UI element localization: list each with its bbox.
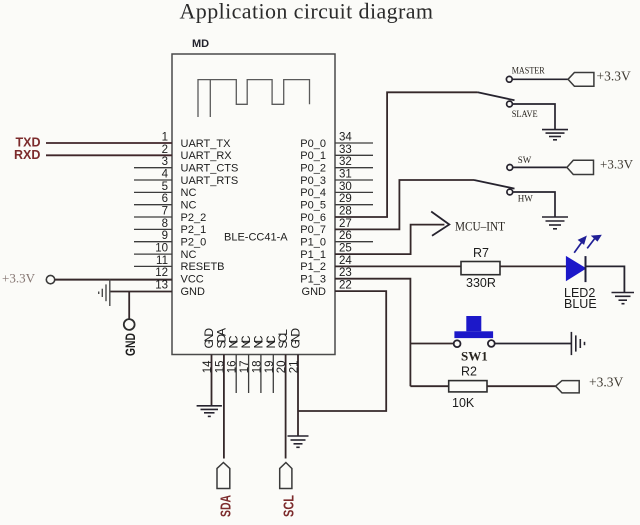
svg-text:3: 3 — [162, 156, 168, 168]
svg-text:31: 31 — [339, 169, 352, 181]
svg-text:4: 4 — [162, 169, 169, 181]
svg-text:P1_0: P1_0 — [300, 237, 326, 249]
svg-text:17: 17 — [239, 361, 251, 374]
svg-text:11: 11 — [156, 255, 168, 267]
svg-text:P0_0: P0_0 — [300, 138, 326, 150]
svg-text:UART_CTS: UART_CTS — [181, 163, 239, 175]
svg-text:21: 21 — [289, 361, 301, 374]
svg-text:UART_RX: UART_RX — [181, 150, 233, 162]
svg-text:8: 8 — [162, 218, 168, 230]
svg-text:GND: GND — [289, 328, 303, 349]
svg-text:28: 28 — [339, 206, 352, 218]
svg-text:NC: NC — [181, 200, 197, 212]
svg-text:20: 20 — [276, 361, 288, 374]
svg-text:GND: GND — [181, 286, 206, 298]
svg-text:22: 22 — [339, 280, 352, 292]
svg-text:SW1: SW1 — [461, 349, 488, 364]
svg-text:P1_2: P1_2 — [300, 261, 326, 273]
svg-text:SCL: SCL — [282, 495, 298, 517]
svg-text:SLAVE: SLAVE — [512, 109, 538, 119]
svg-text:SDA: SDA — [219, 495, 235, 517]
svg-text:P2_0: P2_0 — [181, 237, 207, 249]
svg-text:UART_TX: UART_TX — [181, 138, 232, 150]
svg-text:P0_7: P0_7 — [300, 224, 326, 236]
svg-text:UART_RTS: UART_RTS — [181, 175, 239, 187]
svg-text:33: 33 — [339, 144, 352, 156]
svg-text:24: 24 — [339, 255, 352, 267]
svg-text:R7: R7 — [473, 246, 489, 260]
svg-text:MCU–INT: MCU–INT — [455, 219, 505, 234]
svg-text:R2: R2 — [461, 365, 477, 379]
svg-text:GND: GND — [123, 333, 138, 356]
svg-text:18: 18 — [251, 361, 263, 374]
svg-text:MD: MD — [192, 38, 209, 50]
svg-text:10K: 10K — [452, 396, 475, 410]
svg-text:1: 1 — [162, 132, 168, 144]
svg-text:23: 23 — [339, 267, 352, 279]
svg-text:MASTER: MASTER — [512, 65, 545, 75]
svg-text:VCC: VCC — [181, 274, 204, 286]
svg-text:SW: SW — [518, 155, 532, 165]
svg-text:P0_1: P0_1 — [300, 150, 326, 162]
svg-text:15: 15 — [214, 361, 226, 374]
svg-text:P1_3: P1_3 — [300, 274, 326, 286]
svg-text:32: 32 — [339, 156, 352, 168]
svg-text:30: 30 — [339, 181, 352, 193]
svg-text:BLE-CC41-A: BLE-CC41-A — [224, 232, 288, 244]
svg-text:34: 34 — [339, 132, 352, 144]
svg-text:P0_4: P0_4 — [300, 187, 326, 199]
svg-text:+3.3V: +3.3V — [2, 271, 36, 286]
svg-text:P2_2: P2_2 — [181, 212, 207, 224]
svg-text:P0_6: P0_6 — [300, 212, 326, 224]
svg-text:25: 25 — [339, 243, 352, 255]
svg-text:330R: 330R — [466, 276, 496, 290]
svg-text:19: 19 — [264, 361, 276, 374]
svg-text:26: 26 — [339, 230, 352, 242]
svg-text:29: 29 — [339, 193, 352, 205]
svg-text:16: 16 — [227, 361, 239, 374]
svg-text:12: 12 — [155, 267, 168, 279]
svg-text:5: 5 — [162, 181, 168, 193]
svg-text:9: 9 — [162, 230, 168, 242]
svg-text:+3.3V: +3.3V — [600, 156, 634, 171]
svg-text:14: 14 — [202, 360, 214, 373]
svg-text:GND: GND — [302, 286, 327, 298]
svg-text:P0_2: P0_2 — [300, 163, 326, 175]
svg-text:10: 10 — [155, 243, 168, 255]
svg-text:NC: NC — [181, 249, 197, 261]
svg-text:RESETB: RESETB — [181, 261, 225, 273]
svg-text:13: 13 — [155, 280, 168, 292]
svg-text:7: 7 — [162, 206, 168, 218]
svg-text:Application circuit diagram: Application circuit diagram — [180, 0, 434, 24]
svg-text:NC: NC — [181, 187, 197, 199]
svg-text:6: 6 — [162, 193, 168, 205]
svg-text:2: 2 — [162, 144, 168, 156]
svg-text:27: 27 — [339, 218, 352, 230]
svg-text:P1_1: P1_1 — [300, 249, 326, 261]
svg-text:+3.3V: +3.3V — [597, 69, 631, 84]
svg-text:+3.3V: +3.3V — [589, 375, 623, 390]
svg-text:P0_5: P0_5 — [300, 200, 326, 212]
svg-text:HW: HW — [518, 194, 533, 204]
svg-text:BLUE: BLUE — [564, 297, 597, 311]
svg-text:RXD: RXD — [14, 148, 40, 162]
svg-text:P2_1: P2_1 — [181, 224, 207, 236]
svg-text:P0_3: P0_3 — [300, 175, 326, 187]
